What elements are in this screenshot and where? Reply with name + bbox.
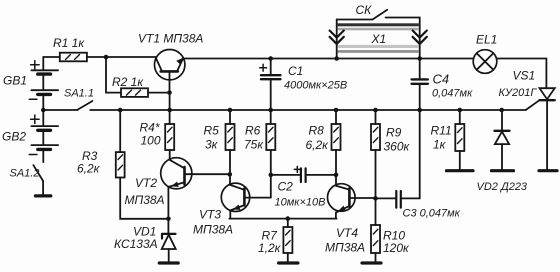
wire VT3 base riser	[270, 175, 272, 198]
svg-text:X1: X1	[371, 32, 387, 46]
switch SA1.1	[43, 101, 92, 110]
resistor R6	[266, 110, 275, 175]
svg-text:EL1: EL1	[476, 33, 497, 47]
resistor R2	[121, 88, 170, 97]
node R7 top	[286, 216, 291, 221]
svg-text:GB2: GB2	[2, 130, 26, 144]
resistor R9	[371, 110, 380, 198]
wire VT1 base to bus to R4	[169, 93, 171, 124]
transistor VT3	[221, 183, 270, 219]
transistor VT2	[161, 158, 230, 219]
resistor R11	[447, 110, 474, 171]
svg-text:6,2к: 6,2к	[306, 138, 330, 152]
node C1 top	[268, 56, 273, 61]
node X1 right / C4 top	[417, 56, 422, 61]
battery GB2	[29, 110, 58, 162]
svg-text:C3 0,047мк: C3 0,047мк	[403, 208, 461, 220]
node bus R3	[118, 108, 123, 113]
svg-text:0,047мк: 0,047мк	[432, 88, 473, 100]
diode VD2	[492, 110, 514, 171]
node bus C1 / R6	[268, 108, 273, 113]
resistor R10	[362, 198, 381, 263]
thyristor VS1	[526, 88, 557, 171]
svg-text:C2: C2	[278, 179, 294, 193]
svg-text:R9: R9	[386, 125, 402, 139]
node C2 left / R6 / VT3 base	[269, 173, 274, 178]
svg-text:R8: R8	[309, 123, 325, 137]
svg-text:VD2 Д223: VD2 Д223	[477, 181, 528, 193]
svg-text:R5: R5	[204, 123, 220, 137]
svg-text:КУ201Г: КУ201Г	[499, 87, 538, 99]
resistor R1	[60, 53, 106, 62]
svg-text:360к: 360к	[384, 139, 411, 153]
svg-text:КС133А: КС133А	[114, 237, 158, 251]
node bus VD2	[499, 108, 504, 113]
capacitor C4	[412, 59, 428, 111]
node bus R11	[458, 108, 463, 113]
node bus C4	[417, 108, 422, 113]
connector X1	[337, 18, 420, 59]
svg-text:10мк×10В: 10мк×10В	[275, 197, 326, 209]
node VT2 base / VT3 collector	[228, 172, 233, 177]
node VT4 base / R9 / R10 / C3	[373, 196, 378, 201]
svg-text:1к: 1к	[433, 138, 447, 152]
svg-text:VT1 МП38А: VT1 МП38А	[138, 32, 203, 46]
capacitor C3	[376, 110, 420, 208]
node VT2 emitter / R3 / VD1	[166, 217, 171, 222]
node bus R9	[373, 108, 378, 113]
svg-text:100: 100	[141, 133, 161, 147]
wire lamp to VS1	[497, 59, 547, 89]
resistor R5	[226, 110, 235, 185]
node VT1 base / R2	[167, 90, 172, 95]
wire junction to VT1	[106, 56, 157, 58]
node bus R5	[228, 108, 233, 113]
node X1 left bottom	[334, 56, 339, 61]
svg-text:R2 1к: R2 1к	[112, 75, 144, 89]
svg-text:C1: C1	[288, 64, 303, 78]
transistor VT4	[328, 175, 376, 219]
svg-text:120к: 120к	[383, 241, 410, 255]
svg-text:6,2к: 6,2к	[77, 162, 101, 176]
svg-text:GB1: GB1	[3, 74, 27, 88]
svg-text:СК: СК	[356, 3, 373, 17]
svg-text:МП38А: МП38А	[325, 240, 365, 254]
node bus R8	[334, 108, 339, 113]
svg-text:VT2: VT2	[135, 176, 157, 190]
node battery tap junction	[41, 108, 46, 113]
connector arrows left	[330, 31, 344, 44]
resistor R3	[116, 110, 169, 219]
transistor VT1	[155, 49, 185, 92]
svg-text:VT3: VT3	[199, 207, 221, 221]
connector arrows right	[413, 31, 427, 44]
zener VD1	[159, 219, 178, 263]
resistor R4	[165, 124, 174, 160]
switch CK over X1	[337, 10, 420, 20]
svg-text:SA1.1: SA1.1	[64, 88, 94, 100]
svg-text:МП38А: МП38А	[125, 193, 165, 207]
svg-text:3к: 3к	[205, 138, 219, 152]
svg-text:R1 1к: R1 1к	[53, 36, 85, 50]
svg-text:R6: R6	[245, 123, 261, 137]
resistor R7	[279, 219, 298, 263]
node bus VT1 base / R4	[167, 108, 172, 113]
svg-text:C4: C4	[433, 72, 450, 87]
node C2 right / R8 / VT4 collector	[334, 173, 339, 178]
svg-text:МП38А: МП38А	[193, 223, 233, 237]
resistor R8	[332, 110, 341, 175]
svg-text:SA1.2: SA1.2	[10, 167, 40, 179]
capacitor C1	[260, 59, 281, 111]
battery GB1	[29, 57, 58, 110]
svg-text:1,2к: 1,2к	[258, 241, 282, 255]
wire battery to R1	[43, 56, 60, 58]
svg-text:75к: 75к	[244, 138, 264, 152]
svg-text:R11: R11	[431, 123, 452, 137]
node R1/R2 junction	[104, 55, 109, 60]
svg-text:VT4: VT4	[336, 226, 358, 240]
wire R2 riser	[106, 57, 121, 93]
capacitor C2	[271, 166, 336, 182]
lamp EL1	[473, 50, 497, 74]
svg-text:VS1: VS1	[513, 69, 536, 83]
switch SA1.2	[33, 165, 50, 196]
wire common emitters VT3 VT4	[229, 218, 336, 220]
wire mid bus	[90, 109, 526, 111]
svg-text:4000мк×25В: 4000мк×25В	[284, 80, 347, 92]
wire VT1 emitter to lamp (top rail)	[183, 58, 474, 60]
